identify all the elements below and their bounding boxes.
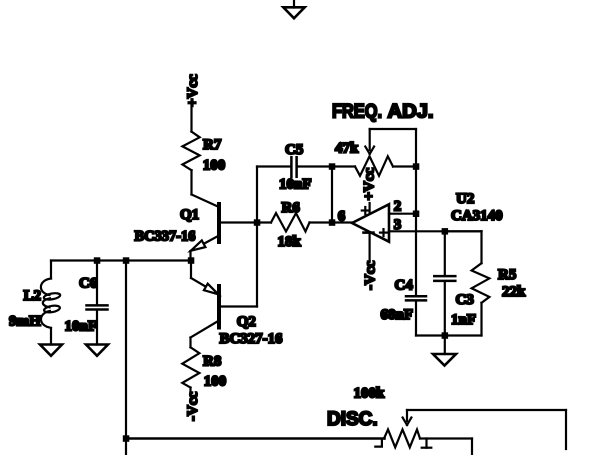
wire +Vcc to R7 <box>190 108 192 132</box>
svg-text:C4: C4 <box>395 278 414 294</box>
svg-text:DISC.: DISC. <box>327 409 378 430</box>
svg-text:C3: C3 <box>456 292 474 308</box>
ground (C6) <box>86 345 108 356</box>
svg-text:22k: 22k <box>502 284 526 300</box>
wire Q2 collector to R8 <box>189 338 191 348</box>
wire left rail <box>51 259 191 261</box>
node -Vcc (op-amp supply) <box>369 234 371 260</box>
potentiometer 100k DISC <box>384 430 420 448</box>
pot terminal mark left <box>375 439 382 447</box>
node junction 47k right <box>413 163 420 170</box>
ground (top) <box>283 7 304 18</box>
svg-text:68nF: 68nF <box>381 307 414 323</box>
svg-text:C6: C6 <box>79 275 98 291</box>
node junction Q1 base <box>254 219 260 226</box>
node junction ground rail <box>442 332 449 339</box>
svg-text:+Vcc: +Vcc <box>185 74 201 107</box>
inductor L2 <box>50 261 52 279</box>
svg-text:R6: R6 <box>282 200 301 216</box>
svg-text:6: 6 <box>338 209 346 225</box>
svg-text:2: 2 <box>394 199 402 215</box>
svg-text:C5: C5 <box>285 142 303 158</box>
node junction feedback/rail <box>123 257 130 264</box>
pin 3 wire <box>389 230 482 232</box>
svg-text:47k: 47k <box>335 140 359 156</box>
node junction emitters/rail <box>188 257 195 264</box>
plus supply mark <box>362 209 369 211</box>
svg-text:BC327-16: BC327-16 <box>220 331 283 347</box>
wire pot to right drop <box>420 437 472 439</box>
pot terminal mark right <box>425 439 427 448</box>
minus supply mark <box>364 231 374 234</box>
capacitor C6 <box>96 261 98 305</box>
svg-text:100: 100 <box>203 158 226 174</box>
svg-text:Q2: Q2 <box>237 314 256 330</box>
wire feedback column <box>125 261 127 455</box>
svg-text:BC337-16: BC337-16 <box>135 229 196 245</box>
wire top ground stub <box>293 0 295 8</box>
capacitor C3 <box>434 275 455 278</box>
ground (L2) <box>40 345 62 356</box>
svg-text:10nF: 10nF <box>279 177 312 193</box>
node junction pin3 <box>442 228 449 235</box>
wire pin2 column to C4 <box>415 167 417 296</box>
wire bottom rail <box>416 334 482 336</box>
transistor Q2 <box>190 261 192 279</box>
svg-text:100: 100 <box>204 374 227 390</box>
potentiometer 47k FREQ ADJ <box>332 165 355 167</box>
svg-text:100k: 100k <box>354 385 386 401</box>
node junction C5/47k <box>329 163 336 170</box>
ground (C3/C4) <box>444 336 446 355</box>
svg-text:-Vcc: -Vcc <box>185 392 201 421</box>
svg-text:R8: R8 <box>203 354 221 370</box>
node junction bottom feedback <box>123 435 130 442</box>
resistor R6 <box>257 221 271 223</box>
svg-text:-Vcc: -Vcc <box>363 261 379 290</box>
pin 2 wire <box>389 213 416 215</box>
svg-text:9mH: 9mH <box>9 314 41 330</box>
svg-text:+Vcc: +Vcc <box>361 167 377 200</box>
wiper arrow 100k <box>406 410 408 421</box>
wire Q1 base <box>219 221 257 223</box>
svg-text:L2: L2 <box>24 288 42 304</box>
svg-text:U2: U2 <box>456 191 474 207</box>
capacitor C5 <box>290 157 293 177</box>
svg-text:3: 3 <box>394 217 402 233</box>
wire C5 branch up <box>256 167 258 223</box>
resistor R7 <box>182 132 199 171</box>
svg-text:Q1: Q1 <box>180 207 199 223</box>
node 6 junction <box>329 219 336 226</box>
wire bottom feedback <box>126 437 385 440</box>
resistor R8 <box>182 347 199 387</box>
resistor R5 branch <box>445 230 482 232</box>
op-amp U2 <box>352 204 389 241</box>
wire pin3 column to C3 <box>444 231 446 275</box>
svg-text:FREQ.: FREQ. <box>332 101 382 122</box>
svg-text:1nF: 1nF <box>451 312 476 328</box>
node junction pin2 <box>413 211 420 218</box>
wire op-amp output <box>332 221 352 223</box>
svg-text:R5: R5 <box>498 267 516 283</box>
node junction C6/rail <box>94 257 101 264</box>
svg-text:R7: R7 <box>203 137 222 153</box>
transistor Q1 <box>192 195 220 208</box>
wire Q2 base <box>219 305 257 307</box>
svg-text:ADJ.: ADJ. <box>388 101 434 122</box>
capacitor C4 <box>406 295 426 298</box>
svg-text:18k: 18k <box>278 234 302 250</box>
wire node6 column <box>331 167 333 223</box>
wire R7 to Q1 collector <box>190 170 192 194</box>
wiper arrow 47k <box>369 129 371 150</box>
svg-text:CA3140: CA3140 <box>451 208 503 224</box>
svg-text:10nF: 10nF <box>65 319 98 335</box>
plus mark (non-inverting input) <box>380 232 387 234</box>
